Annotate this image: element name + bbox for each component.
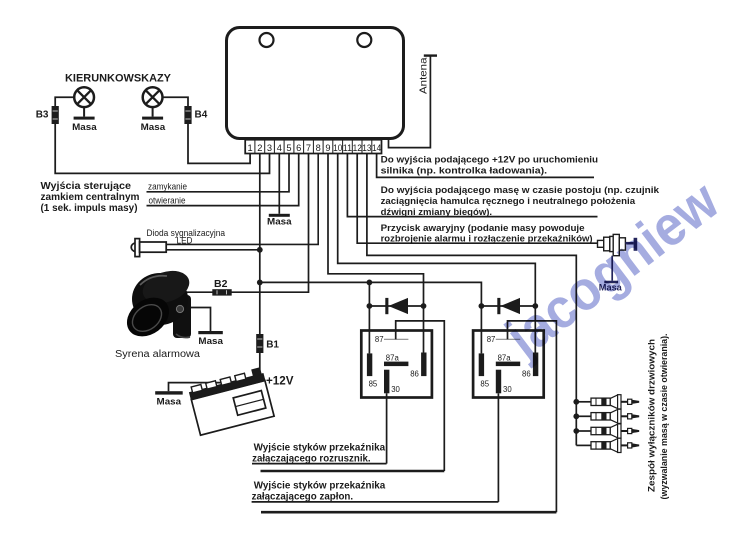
diode D2	[497, 298, 520, 314]
wire relay K2 pin 87 output	[508, 321, 557, 512]
svg-text:dźwigni zmiany biegów).: dźwigni zmiany biegów).	[381, 207, 493, 218]
wire terminal 13 to door switch bus	[367, 154, 576, 446]
pin labels	[369, 335, 419, 394]
svg-text:10: 10	[333, 143, 342, 153]
door switch 2	[576, 409, 639, 423]
svg-text:Do wyjścia podającego +12V po: Do wyjścia podającego +12V po uruchomien…	[381, 154, 599, 165]
wire rozrusznik contact line (pin 30)	[252, 463, 387, 465]
svg-text:87a: 87a	[386, 353, 400, 362]
svg-text:B1: B1	[266, 339, 279, 350]
svg-text:Wyjście styków przekaźnika: Wyjście styków przekaźnika	[254, 443, 386, 454]
diode D1 wire	[369, 305, 423, 307]
wire przycisk to ground	[611, 256, 613, 281]
relay K1 contact 87a bar	[384, 362, 408, 367]
junction dot	[479, 303, 485, 309]
wire relay K1 pin 87 output	[396, 321, 445, 471]
svg-text:5: 5	[286, 143, 291, 153]
svg-text:9: 9	[325, 143, 330, 153]
wire lamp1 to fuse B3	[55, 97, 74, 106]
label masa-postoju note	[381, 185, 660, 218]
svg-text:(wyzwalanie masą w czasie otwi: (wyzwalanie masą w czasie otwierania).	[658, 334, 669, 500]
relay K1 pin 30 bar	[384, 370, 389, 394]
svg-text:załączającego rozrusznik.: załączającego rozrusznik.	[252, 453, 371, 464]
wire B4 to terminal 1	[188, 124, 250, 163]
junction dot door bus	[573, 413, 579, 419]
svg-text:11: 11	[343, 143, 352, 153]
ground battery	[155, 391, 183, 394]
wire otwieranie to terminal 6	[147, 154, 299, 206]
fuse B4	[184, 106, 191, 124]
siren (syrena)	[119, 265, 193, 344]
svg-text:85: 85	[480, 380, 489, 389]
wire terminal 2 to battery +12V	[259, 154, 261, 379]
relay K2 pin 30 bar	[496, 370, 501, 394]
wire D1 right to relay K1 pin 86	[423, 306, 425, 353]
wire terminal 9 to diode D1 right	[328, 154, 424, 307]
diode D2 wire	[481, 305, 535, 307]
svg-text:Zespół wyłączników drzwiowych: Zespół wyłączników drzwiowych	[646, 339, 657, 492]
przycisk awaryjny (emergency button)	[598, 234, 626, 255]
relay K2 pin 87 line	[496, 338, 520, 340]
svg-text:85: 85	[369, 380, 378, 389]
lamp B4-side kierunkowskaz	[143, 87, 163, 107]
button plunger stem	[625, 242, 633, 245]
wire terminal 4 to ground	[278, 154, 280, 214]
wire siren ground	[186, 308, 211, 332]
battery 12V accumulator	[188, 367, 274, 435]
wire relay K1 pin 30 output	[386, 393, 388, 463]
fuse B1	[256, 334, 263, 353]
ground terminal 4	[269, 214, 290, 217]
lamp B3-side kierunkowskaz	[74, 87, 94, 107]
svg-text:Masa: Masa	[267, 215, 292, 226]
ground under lamp	[74, 117, 95, 120]
ground under lamp	[142, 117, 163, 120]
svg-text:6: 6	[296, 143, 301, 153]
svg-text:8: 8	[316, 143, 321, 153]
fuse B2	[212, 289, 231, 295]
label zaplon output	[252, 481, 386, 503]
relay K2 pin 86 bar	[533, 353, 538, 377]
junction dot relay feed	[257, 280, 263, 286]
ground siren	[198, 331, 223, 334]
svg-text:B4: B4	[195, 110, 208, 121]
wire relay K2 pin 30 output	[497, 393, 499, 502]
wire lamp2 to fuse B4	[163, 97, 189, 106]
fuse B3	[52, 106, 59, 124]
label rozrusznik output	[252, 443, 386, 465]
svg-text:87: 87	[375, 335, 384, 344]
junction dot relay1 coil	[367, 280, 373, 286]
svg-text:13: 13	[362, 143, 371, 153]
svg-text:87: 87	[487, 335, 496, 344]
svg-text:Masa: Masa	[72, 121, 97, 132]
svg-text:87a: 87a	[498, 353, 512, 362]
ground przycisk	[604, 281, 618, 284]
junction dot	[532, 303, 538, 309]
label przycisk note	[381, 223, 593, 245]
diode D1	[385, 298, 408, 314]
svg-text:(1 sek. impuls masy): (1 sek. impuls masy)	[41, 203, 138, 214]
svg-text:Do wyjścia podającego masę w c: Do wyjścia podającego masę w czasie post…	[381, 185, 660, 196]
relay K2 contact 87a bar	[496, 362, 520, 367]
mounting hole right	[357, 33, 371, 47]
junction dot door bus	[573, 399, 579, 405]
wire D2 left to relay K2 pin 85	[480, 306, 482, 353]
svg-text:30: 30	[503, 385, 512, 394]
relay K1 pin 86 bar	[421, 353, 426, 377]
svg-text:załączającego zapłon.: załączającego zapłon.	[252, 491, 354, 502]
wire lamp stub to ground	[83, 107, 85, 117]
svg-text:Wyjście styków przekaźnika: Wyjście styków przekaźnika	[254, 481, 386, 492]
svg-text:1: 1	[248, 143, 253, 153]
svg-text:4: 4	[277, 143, 282, 153]
wire +12V node to relay coils	[260, 282, 482, 306]
wire rozrusznik contact line (pin 87)	[261, 470, 445, 473]
wire siren via fuse B2 to terminal 7	[182, 154, 309, 293]
svg-text:KIERUNKOWSKAZY: KIERUNKOWSKAZY	[65, 72, 171, 84]
wire D1 left to relay K1 pin 85	[368, 306, 370, 353]
svg-text:Syrena alarmowa: Syrena alarmowa	[115, 349, 201, 360]
relay K1 box	[361, 331, 432, 398]
wire zaplon contact line (pin 87)	[261, 511, 556, 514]
wire branch to diode D1 left	[368, 282, 370, 306]
junction dot	[367, 303, 373, 309]
svg-text:otwieranie: otwieranie	[149, 195, 186, 205]
svg-text:Przycisk awaryjny (podanie mas: Przycisk awaryjny (podanie masy powoduje	[381, 223, 585, 234]
wire D2 right to relay K2 pin 86	[534, 306, 536, 353]
svg-text:14: 14	[372, 143, 381, 153]
label +12V note	[381, 154, 599, 176]
svg-text:B2: B2	[214, 278, 228, 290]
svg-text:zaciągnięcia hamulca ręcznego: zaciągnięcia hamulca ręcznego i neutraln…	[381, 196, 636, 207]
svg-text:Antena: Antena	[419, 57, 430, 94]
svg-text:+12V: +12V	[266, 374, 294, 387]
svg-text:86: 86	[410, 370, 419, 379]
svg-text:2: 2	[257, 143, 262, 153]
svg-text:B3: B3	[36, 110, 49, 121]
door switch 4	[576, 438, 639, 452]
wire B3 to terminal 3	[55, 124, 269, 173]
wire zaplon contact line (pin 30)	[252, 501, 499, 503]
pin labels	[480, 335, 530, 394]
svg-text:Masa: Masa	[157, 396, 182, 407]
wire terminal 12 to przycisk awaryjny	[357, 154, 597, 244]
svg-text:3: 3	[267, 143, 272, 153]
LED top lead to terminal 8	[166, 154, 318, 245]
svg-text:30: 30	[391, 385, 400, 394]
svg-text:silnika (np. kontrolka ładowan: silnika (np. kontrolka ładowania).	[381, 165, 547, 176]
antenna tip	[424, 54, 437, 56]
door switch 1	[576, 395, 639, 409]
door switch 3	[576, 424, 639, 438]
junction dot LED/+12V	[257, 247, 263, 253]
svg-text:Masa: Masa	[198, 335, 223, 346]
mounting hole left	[260, 33, 274, 47]
wire battery ground	[169, 383, 228, 392]
wire terminal 14 to +12V note	[377, 154, 594, 178]
LED bottom lead to +12V node	[166, 249, 260, 251]
junction dot	[421, 303, 427, 309]
junction dot door bus	[573, 428, 579, 434]
wire zamykanie to terminal 5	[147, 154, 290, 192]
svg-text:86: 86	[522, 370, 531, 379]
relay K1 pin 85 bar	[367, 353, 372, 376]
terminal strip 1-14	[245, 140, 381, 154]
svg-text:zamykanie: zamykanie	[148, 181, 187, 191]
svg-text:zamkiem centralnym: zamkiem centralnym	[41, 192, 140, 203]
control unit U1 (centrala alarmowa)	[227, 28, 404, 139]
svg-text:rozbrojenie alarmu i rozłączen: rozbrojenie alarmu i rozłączenie przekaź…	[381, 233, 593, 244]
svg-text:Masa: Masa	[141, 121, 166, 132]
wire lamp stub to ground	[152, 107, 154, 117]
button cap	[634, 238, 638, 251]
label central lock outputs	[41, 181, 140, 214]
svg-text:12: 12	[353, 143, 362, 153]
svg-text:Wyjścia sterujące: Wyjścia sterujące	[41, 181, 132, 192]
wire terminal 11 to masa-postoju note	[347, 154, 597, 217]
wire antenna from box	[389, 56, 431, 148]
relay K2 pin 85 bar	[479, 353, 484, 376]
wire terminal 10 to diode D2 right	[338, 154, 536, 307]
LED symbol	[131, 239, 166, 257]
relay K1 pin 87 line	[384, 338, 408, 340]
svg-text:7: 7	[306, 143, 311, 153]
relay K2 box	[473, 331, 544, 398]
